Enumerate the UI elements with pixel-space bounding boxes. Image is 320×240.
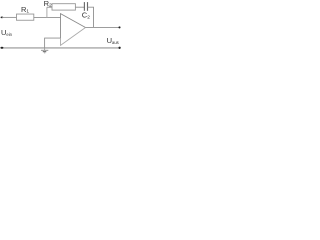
svg-text:Uein: Uein xyxy=(1,28,13,37)
input lower terminal xyxy=(0,47,3,49)
output terminal dot xyxy=(118,26,120,28)
ground xyxy=(44,48,46,50)
wire noninverting input xyxy=(45,38,61,48)
svg-text:C2: C2 xyxy=(82,11,90,21)
wire C2 to feedback corner xyxy=(88,7,94,27)
op-amp U1 xyxy=(61,14,86,38)
wire input to R1 xyxy=(2,16,17,18)
wire R2 to C2 xyxy=(75,6,84,8)
wire output xyxy=(86,26,121,28)
svg-text:R1: R1 xyxy=(21,5,29,15)
output lower terminal dot xyxy=(118,47,120,49)
capacitor C2 xyxy=(83,2,85,11)
svg-text:Uaus: Uaus xyxy=(107,36,119,45)
node feedback junction xyxy=(46,7,48,17)
input terminal xyxy=(1,17,4,19)
svg-text:R2: R2 xyxy=(44,0,52,9)
wire bottom rail xyxy=(2,47,121,49)
resistor R1 xyxy=(17,14,34,20)
wire junction to R2 xyxy=(47,6,52,8)
wire R1 to op-amp xyxy=(34,16,61,18)
resistor R2 xyxy=(52,4,75,10)
